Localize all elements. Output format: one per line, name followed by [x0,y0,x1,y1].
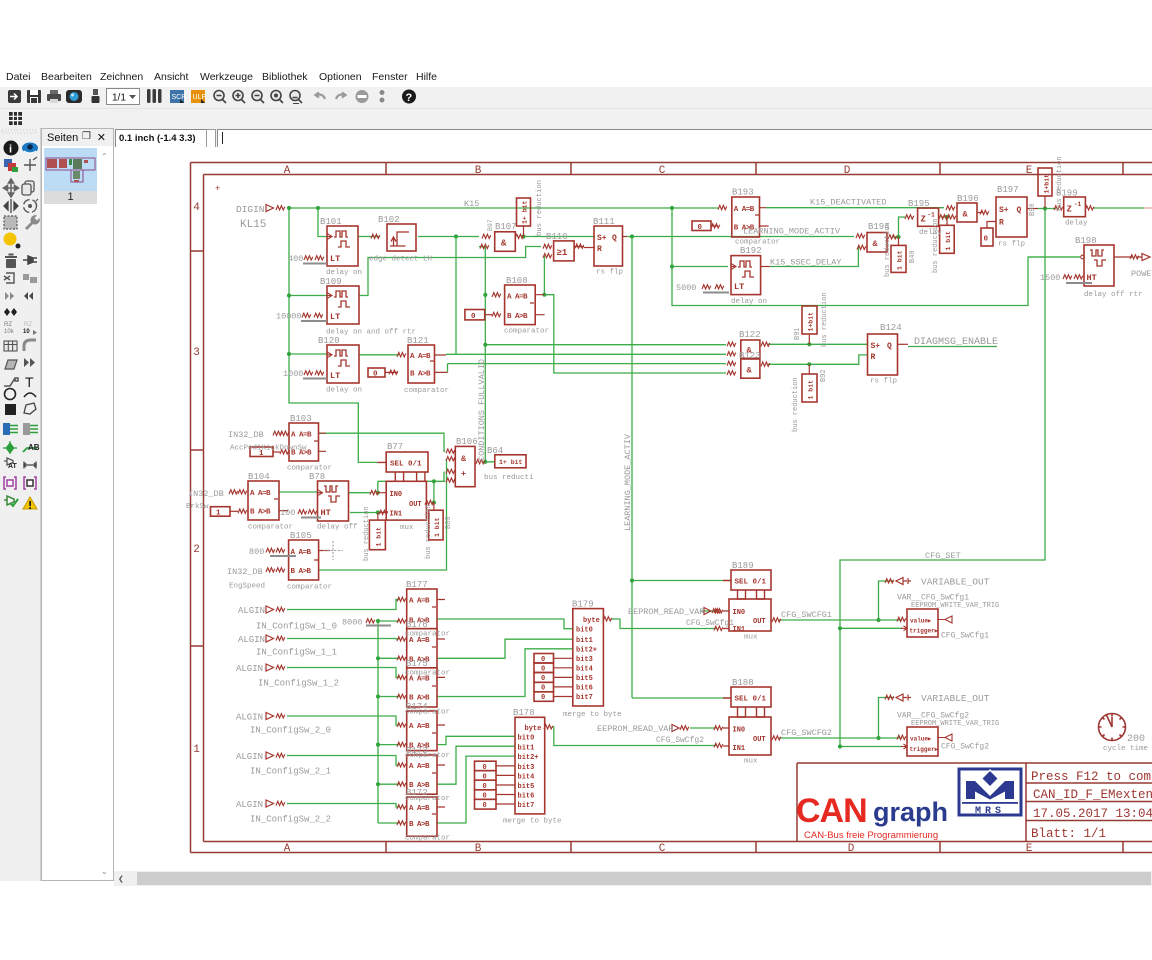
delay block B109 [327,286,359,324]
svg-text:0: 0 [483,773,487,781]
squiggle B104 B [238,509,247,513]
junction B195 out node [945,215,949,219]
svg-text:B179: B179 [572,600,594,610]
junction mux out [432,501,436,505]
svg-text:A A=B: A A=B [507,294,528,302]
main schematic canvas [114,147,1152,871]
wire B172 B out to B178 bit2 [437,756,515,823]
svg-text:HT: HT [1087,273,1097,283]
tool table [4,341,17,351]
svg-text:0: 0 [698,224,703,232]
svg-text:bit4: bit4 [518,773,535,781]
svg-text:EEPROM_READ_VAR: EEPROM_READ_VAR [628,607,705,617]
svg-text:B123: B123 [739,351,761,361]
squiggle B122 out [761,342,770,346]
Seiten panel [41,128,114,881]
svg-text:CFG_SWCFG2: CFG_SWCFG2 [781,728,832,738]
svg-text:K15: K15 [464,199,479,209]
svg-text:DIGIN: DIGIN [236,204,265,215]
svg-text:delay on: delay on [731,298,767,306]
svg-text:+: + [461,469,466,479]
wire ALGIN row4 to B174 A [287,716,399,725]
svg-text:bit2+: bit2+ [518,754,539,762]
junction B120 tap [287,352,291,356]
squiggle B107 out [515,234,524,238]
VARIABLE_OUT port 1 [896,578,911,585]
svg-text:1+bit: 1+bit [808,312,815,332]
svg-text:bit5: bit5 [576,675,593,683]
wire B176 B out to B179 bit1 [437,639,573,658]
svg-text:comparator: comparator [404,387,449,395]
svg-text:B175: B175 [406,659,428,669]
zoom in icon [233,91,245,104]
frame column dividers top band [386,163,1123,175]
svg-text:SEL 0/1: SEL 0/1 [390,461,422,469]
svg-text:0: 0 [373,371,378,379]
tool show [22,143,38,154]
svg-text:17.05.2017 13:04: 17.05.2017 13:04 [1033,807,1152,821]
svg-text:S+: S+ [999,206,1009,215]
left tool palette [0,128,41,881]
svg-text:IN0: IN0 [733,609,746,617]
svg-text:LEARNING_MODE_ACTIV: LEARNING_MODE_ACTIV [623,433,633,531]
svg-text:A A=B: A A=B [409,598,430,606]
tool rotate [24,199,39,213]
svg-text:1 bit: 1 bit [376,527,383,547]
svg-text:SEL 0/1: SEL 0/1 [735,579,767,587]
svg-text:A A=B: A A=B [291,432,312,440]
svg-text:CAN_ID_F_EMexten: CAN_ID_F_EMexten [1033,788,1152,802]
junction B108 out node [542,293,546,297]
frame row dividers left band [191,251,204,646]
svg-text:B110: B110 [546,232,568,242]
junction 8000 bus tap1 [376,656,380,660]
eeprom write block value trigger 1 [901,609,952,637]
svg-text:CFG_SwCfg1: CFG_SwCfg1 [686,619,734,628]
squiggle B195 out [939,215,948,219]
squiggle B108 B [492,312,501,316]
coordinate display [115,129,208,148]
svg-text:AccPed1KickDownSw: AccPed1KickDownSw [230,445,307,453]
bus reduction 1bit B92 [802,364,817,402]
svg-text:rs flp: rs flp [998,241,1025,249]
svg-text:A A=B: A A=B [409,763,430,771]
svg-text:cycle time i: cycle time i [1103,745,1152,753]
grid icon [9,112,22,125]
svg-text:ALGIN: ALGIN [238,635,265,645]
svg-text:0: 0 [541,675,545,683]
merge to byte block B179 [573,609,604,706]
svg-text:POWER: POWER [1131,269,1152,279]
junction DIGIN node [287,206,291,210]
svg-text:Q: Q [1017,206,1022,215]
wire CONDITIONS_FULLVALID vertical [479,247,495,462]
svg-text:0: 0 [541,656,545,664]
1bit probe under mux out [429,503,443,540]
junction B102 net [454,234,458,238]
svg-text:IN_ConfigSw_2_1: IN_ConfigSw_2_1 [250,767,331,777]
svg-text:merge to byte: merge to byte [503,818,562,826]
svg-text:LEARNING_MODE_ACTIV: LEARNING_MODE_ACTIV [743,227,841,237]
ALGIN port arrows [266,606,274,807]
svg-text:1+ bit: 1+ bit [499,459,523,466]
bus reduction 1bit B40 [891,237,906,272]
wire B78 out to mux IN0 [349,492,371,494]
zoom select icon [271,91,283,104]
clock cycle-time symbol [1099,714,1126,741]
tool info [4,141,19,156]
tool rect [5,404,16,415]
svg-text:delay on: delay on [326,387,362,395]
svg-text:CFG_SwCfg2: CFG_SwCfg2 [941,743,989,752]
wire DIAGMSG_ENABLE [908,346,997,348]
svg-text:-1: -1 [928,212,936,219]
squiggle B178 byte [544,725,553,729]
svg-text:CONDITIONS_FULLVALID: CONDITIONS_FULLVALID [477,359,487,461]
wire B121 B out to B123.in1 [448,364,727,373]
svg-text:K15_DEACTIVATED: K15_DEACTIVATED [810,198,887,208]
svg-text:CAN-Bus freie Programmierung: CAN-Bus freie Programmierung [804,830,938,841]
svg-text:comparator: comparator [405,795,450,803]
comparator B173 [407,755,445,794]
selector SEL block B188 [723,687,771,717]
tool replace [23,274,37,283]
squiggle B105 B [266,568,275,572]
squiggle mux IN1 [379,510,388,514]
EEPROM_READ_VAR port arrow 1 [704,608,711,615]
wire CFG_SET tap to trigger1 [840,627,902,629]
svg-text:delay on: delay on [326,269,362,277]
svg-text:VARIABLE_OUT: VARIABLE_OUT [921,577,990,588]
svg-text:C: C [659,165,666,177]
wire CFG_SET long vertical from B197 node [840,209,1045,747]
svg-text:IN1: IN1 [390,511,403,519]
zoom redraw icon [290,91,302,104]
icon SCR [170,90,186,103]
svg-text:IN0: IN0 [390,491,403,499]
title block border [797,763,1152,842]
svg-text:&: & [963,210,969,220]
svg-text:&: & [461,454,467,464]
svg-text:OUT: OUT [753,618,766,626]
wire ALGIN row1 to B177 A [287,600,399,610]
svg-text:B92: B92 [820,369,828,382]
svg-text:Z: Z [1067,205,1072,215]
squiggle B107 in [482,234,491,238]
squiggle B103 B [280,450,289,454]
junction B111 Q node [630,234,634,238]
delay block B199 Z-1 [1064,197,1086,217]
DIGIN port arrow [266,205,274,212]
svg-text:IN32_DB: IN32_DB [188,489,224,499]
wire B194 out to B195 in [892,217,905,237]
svg-text:MRS: MRS [975,806,1005,817]
junction B106 out node [483,460,487,464]
squiggle B103 A [273,431,282,435]
squiggle B199 in [1054,206,1063,210]
tool mirror [4,199,18,213]
underline 100 [301,517,321,519]
tool errors warning [23,497,37,509]
svg-text:AB: AB [28,443,40,452]
svg-text:AT: AT [8,463,18,470]
svg-text:0: 0 [483,764,487,772]
RS flipflop B124 [868,334,909,375]
icon open [8,90,21,103]
svg-text:B102: B102 [378,215,400,225]
VARIABLE_OUT port 2 [896,694,911,701]
svg-text:D: D [844,165,851,177]
svg-text:E: E [1026,165,1033,177]
svg-text:SEL 0/1: SEL 0/1 [735,696,767,704]
svg-text:LT: LT [330,371,340,381]
svg-text:1+bit: 1+bit [1044,174,1051,194]
toolbar row 1 [0,87,1152,109]
svg-text:A A=B: A A=B [410,353,431,361]
tool erc [4,496,18,506]
junction B194 out node [896,235,900,239]
svg-text:B64: B64 [487,446,503,456]
svg-text:bus reduction: bus reduction [1056,156,1064,211]
tool diamonds [4,308,17,316]
wire DIGIN vertical to B109 B120 and SEL [289,208,378,462]
svg-text:value▸: value▸ [910,736,932,743]
svg-text:bus reduction: bus reduction [536,180,544,236]
squiggle comparator A inputs [397,597,406,601]
svg-text:0: 0 [984,236,989,244]
svg-text:B188: B188 [732,678,754,688]
squiggle B120 LT [304,371,313,375]
wire LEARNING vertical to B189 B188 SEL [632,237,723,699]
svg-text:B A>B: B A>B [250,509,271,517]
wire B173 B out to B178 bit1 [437,746,515,784]
icon image camera [66,90,82,103]
svg-text:2: 2 [193,544,200,556]
svg-text:D: D [848,843,855,855]
svg-text:8000: 8000 [342,618,362,628]
squiggle B78 HT [298,510,307,514]
svg-text:A: A [284,165,291,177]
bottom horizontal scrollbar [114,871,1152,886]
comparator B108 [505,285,545,325]
mux block B189m [723,599,771,634]
wire branch to B109 input [289,295,327,297]
squiggle B106 out [476,460,485,464]
svg-text:&: & [501,239,507,249]
wire into mux IN1 [350,512,378,514]
svg-text:Q: Q [612,234,617,243]
frame column dividers bottom band [386,842,1123,853]
svg-text:delay on and off rtr: delay on and off rtr [326,329,416,337]
svg-text:rs flp: rs flp [596,269,623,277]
svg-text:B78: B78 [309,472,325,482]
svg-text:bus reduction: bus reduction [363,506,371,561]
wire B195 out to B196.in2 [942,216,950,218]
svg-text:EngSpeed: EngSpeed [229,583,265,591]
svg-text:comparator: comparator [405,709,450,717]
svg-text:B101: B101 [320,217,342,227]
1bit probe left of mux [369,513,385,550]
svg-text:A A=B: A A=B [734,206,755,214]
svg-text:B124: B124 [880,323,902,333]
delay off block B78 [318,481,349,521]
squiggle B121 B [389,370,398,374]
svg-text:merge to byte: merge to byte [563,711,622,719]
wire B193 out K15_DEACTIVATED to B196.in1 [766,207,944,209]
svg-text:B: B [475,843,482,855]
underline 8000 [366,625,391,627]
svg-text:mux: mux [744,758,758,766]
svg-text:T: T [25,374,34,390]
junction B101 tap [316,206,320,210]
bus reduction 1+bit B91 [802,306,817,344]
MRS logo [959,769,1021,817]
squiggle B195 in [905,215,914,219]
junction B197 Q node [1043,206,1047,210]
zoom minus icon [252,91,264,104]
icon probe [92,89,100,103]
svg-text:B104: B104 [248,472,270,482]
tool miter [24,340,36,351]
svg-text:0: 0 [483,802,487,810]
squiggle B198 HT [1063,275,1072,279]
delay block B120 [327,345,359,383]
svg-text:10k: 10k [4,329,15,335]
svg-text:bus reduction: bus reduction [932,218,940,273]
svg-text:K15_5SEC_DELAY: K15_5SEC_DELAY [770,258,841,268]
svg-text:4: 4 [193,202,200,214]
delay off block B198 [1081,245,1133,286]
svg-text:bus reduction: bus reduction [792,377,800,432]
svg-text:VARIABLE_OUT: VARIABLE_OUT [921,693,990,704]
tool net [23,423,38,435]
sheet frame outer border [191,163,1152,853]
svg-text:1: 1 [216,510,221,518]
svg-text:A A=B: A A=B [409,805,430,813]
svg-text:bit7: bit7 [576,694,593,702]
wire B122 out to B124 S+ [768,343,868,345]
svg-text:bit4: bit4 [576,666,593,674]
squiggle B194 out [888,235,897,239]
wire B102 out to AND B107 [418,236,479,238]
tool polygon slant [5,360,17,369]
svg-text:bit7: bit7 [518,802,535,810]
junction B192 tap [670,264,674,268]
svg-text:i: i [9,144,12,156]
svg-text:R: R [999,219,1004,228]
junction 8000 const [376,619,380,623]
svg-text:B122: B122 [739,330,761,340]
svg-text:B121: B121 [407,336,429,346]
underline 400 [303,263,327,265]
mux block B76 [379,481,426,520]
svg-text:B198: B198 [1075,236,1097,246]
menu bar [0,66,1152,87]
junction trigger2 tap [838,744,842,748]
svg-text:0: 0 [541,666,545,674]
svg-text:B A>B: B A>B [507,313,528,321]
underline 1000 [303,378,327,380]
DIGOUT arrow at B198 out [1137,254,1150,261]
svg-text:A A=B: A A=B [409,723,430,731]
underline 10000 [301,320,327,322]
tool arrows1 [5,292,33,300]
underline 800 [270,555,296,557]
wire ALGIN row3 to B175 A [287,668,399,678]
icon ULP [191,90,206,103]
squiggle mux OUT [425,500,434,504]
merge to byte block B178 [515,717,545,814]
svg-text:SCR: SCR [172,94,187,101]
svg-text:bit3: bit3 [518,764,535,772]
toolbar row 2 [0,109,1152,128]
wire B101 out to B102 [358,236,380,238]
wire branch up to VARIABLE_OUT 2 [879,698,895,739]
junction B107 out 1bit tap [521,234,525,238]
svg-text:A A=B: A A=B [250,490,271,498]
svg-text:B A>B: B A>B [409,821,430,829]
tool eject [4,273,14,283]
selector SEL block B189 [723,570,771,599]
svg-text:bit3: bit3 [576,656,593,664]
squiggle VARIABLE_OUT [885,579,894,583]
tool group [4,216,17,229]
svg-text:bus reducti: bus reducti [484,474,534,482]
svg-text:B105: B105 [290,531,312,541]
svg-text:delay off rtr: delay off rtr [1084,291,1143,299]
svg-text:B90: B90 [1029,203,1037,216]
svg-text:B197: B197 [997,185,1019,195]
sheet frame inner border [204,175,1152,842]
tool pinswap [23,256,37,264]
svg-text:B195: B195 [908,199,930,209]
comparator B172 [407,797,445,836]
squiggle B189 IN0 IN1 OUT [714,609,723,613]
svg-text:ULP: ULP [193,94,207,101]
svg-text:bit1: bit1 [518,745,535,753]
svg-text:B A>B: B A>B [291,568,312,576]
icon save [27,90,41,103]
selector SEL block B77 [378,452,429,481]
wire EEPROM_READ_VAR2 to B188 IN0 [690,727,716,729]
squiggle B199 out [1085,206,1094,210]
svg-text:value▸: value▸ [910,618,932,625]
svg-text:0: 0 [541,694,545,702]
AND block B194 [867,233,887,253]
svg-text:200: 200 [1127,734,1145,745]
svg-text:comparator: comparator [405,752,450,760]
wire B189 OUT CFG_SWCFG1 to value1 [779,619,902,621]
RS flipflop B197 [996,197,1038,237]
wire net edge-detect-LH from B109 out [359,247,541,296]
svg-text:≥1: ≥1 [557,248,568,258]
mux block B188m [723,717,771,755]
svg-text:comparator: comparator [405,835,450,843]
svg-text:&: & [873,239,879,249]
tool junction [6,442,15,454]
svg-text:Press F12 to com: Press F12 to com [1031,770,1151,784]
title block text rows [1031,770,1152,841]
svg-text:B77: B77 [387,442,403,452]
comparator B193 [732,197,769,237]
svg-text:0: 0 [483,783,487,791]
svg-text:B196: B196 [957,194,979,204]
squiggle B104 A [229,490,238,494]
junction B109 tap [287,293,291,297]
comparator B121 [408,345,448,383]
squiggle B179 byte [603,617,612,621]
comparator B177 [407,589,445,629]
